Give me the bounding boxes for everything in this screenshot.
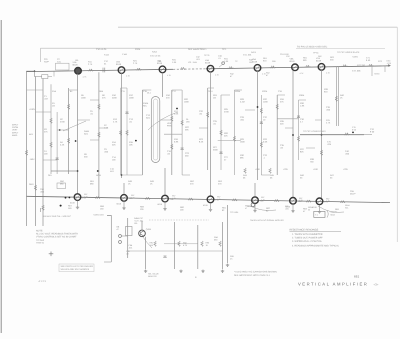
label heater note [297,46,328,49]
svg-text:SEL: SEL [345,206,349,209]
svg-text:470K: 470K [60,121,65,124]
svg-text:1. TAKEN WITH OHMMETER: 1. TAKEN WITH OHMMETER [292,233,323,236]
label underbus r3 [308,206,313,211]
component box X1 [126,227,133,236]
label field28 [167,122,173,128]
resistor R51 [270,66,275,68]
wire stage v4 [197,225,199,269]
wire plate load 7b [337,66,339,126]
label R93 [206,242,211,247]
svg-text:AMPL: AMPL [12,134,19,137]
svg-text:* ELECTROLYTIC CAPACITORS SH: * ELECTROLYTIC CAPACITORS SHOWN [234,271,277,274]
wire stub9 [142,89,151,91]
label V7A [316,57,322,63]
label field107 [96,174,101,177]
label field64 [29,133,33,136]
tube V3B [162,195,169,202]
ground G5 [226,264,229,267]
svg-text:R28A: R28A [235,90,241,93]
label field59 [326,106,331,112]
wire V6B drop [292,204,294,209]
label term [374,73,380,76]
ground G2 [179,270,182,273]
junction J4 [135,140,137,142]
svg-text:R13A: R13A [104,54,110,57]
wire feedback drop [40,48,42,62]
wire V4 cathode [210,72,212,196]
ground V1B [76,206,79,209]
label title mark [374,282,379,286]
label V1B [82,196,87,199]
resistor R26 body [220,130,223,135]
label field101 [143,90,148,93]
svg-text:TRIG S1: TRIG S1 [36,242,45,245]
resistor R29 body [233,136,236,141]
leader curve 0 [63,121,86,131]
label field34 [185,126,190,132]
wire stub11 [172,89,182,91]
label field5 [44,128,48,134]
resistor bus95 [95,196,100,198]
label midv 217 [217,196,222,201]
resistor R45 body [269,168,272,173]
label top2 152 [152,51,158,54]
wire stage v1 [127,218,129,258]
label field24 [112,156,117,162]
label field49 [263,138,268,144]
label field30 [167,150,172,156]
svg-text:4.7K: 4.7K [113,121,118,124]
wire stub8 [121,174,143,176]
tube V4B [207,196,214,203]
wire stub7 [121,87,127,89]
label under stage [148,273,159,278]
label field48 [263,116,268,122]
label V5A value [262,73,267,76]
label field32 [184,98,189,104]
wire V3B drop [164,202,166,207]
svg-text:7: 7 [299,66,300,69]
resistor R17 body [171,116,174,121]
svg-text:4. READINGS APPROXIMATE AND: 4. READINGS APPROXIMATE AND TYPICAL [292,245,340,248]
svg-text:R47A: R47A [251,51,257,54]
label top2 272 [272,60,277,63]
delay line inner [153,99,158,160]
svg-text:+225V DEC: +225V DEC [93,214,105,217]
label top2 104 [104,54,110,57]
wire divider d [276,95,278,175]
wire stage v2 [145,237,147,269]
label V1B type [70,202,76,205]
svg-text:GAIN: GAIN [84,130,90,133]
label field72 [60,180,65,186]
switch box SW1 [314,211,325,217]
resistor R39 body [335,96,338,101]
wire V1B drop [77,201,79,206]
wire plate load 3 [207,88,209,170]
junction J5 [176,108,178,110]
label V7A value [326,72,331,75]
capacitor C9 body [56,158,59,160]
resistor R7 body [67,138,70,143]
label field41 [213,146,218,152]
label V7A pin [326,66,327,69]
label V1A value [83,75,88,78]
wire V3 cathode [162,73,164,98]
wire stage h2 [164,243,198,245]
label field74 [190,180,195,186]
wire V2B drop [123,201,125,206]
resistor R44 body [244,168,247,173]
tube V7B [316,198,323,205]
label field102 [255,168,261,171]
svg-text:6DJ8: 6DJ8 [205,61,211,64]
ground V7B [318,210,321,213]
svg-text:TO CRT UPPER PLATE: TO CRT UPPER PLATE [337,51,360,54]
ground V3B [163,207,166,210]
svg-text:<3>: <3> [374,282,379,286]
capacitor C91 [164,256,167,258]
label V3A [157,60,163,66]
label bracket C14 [110,168,115,173]
svg-text:68K: 68K [240,157,244,160]
label field69 [330,174,335,180]
resistor R34 body [276,104,279,109]
label under stage2 [195,276,197,279]
resistor bus306 [306,200,311,202]
label field73 [90,180,95,186]
resistor R14 body [119,130,122,135]
label field53 [280,144,285,150]
svg-text:2.7K: 2.7K [133,62,138,65]
wire sense hook [107,216,111,263]
svg-text:NOM: NOM [96,174,101,177]
ground V6B [291,209,294,212]
page edge right [396,27,398,242]
label field33 [199,110,204,116]
label field70 [128,180,133,186]
resistor R15 body [126,130,129,135]
junction J9 [352,132,354,134]
label midv 172 [172,195,177,200]
label Q1 [146,228,152,231]
label field91 [135,48,141,51]
label top 352 [352,56,359,59]
label top 133 [133,60,138,66]
svg-text:TAKEN WITH NO SIGNAL APPLI: TAKEN WITH NO SIGNAL APPLIED [250,219,284,222]
label top 150 [150,55,161,58]
label V3A value [167,74,172,77]
label top 313 [313,52,319,55]
svg-text:+100V: +100V [29,108,36,111]
wire V6 cathode [292,70,294,197]
label DL1 [147,92,152,95]
svg-text:R16A: R16A [143,102,149,105]
label q cap [129,244,134,249]
label field82 [222,207,227,213]
svg-text:100K: 100K [184,101,189,104]
resistor R11 [88,69,93,71]
termination block [42,75,48,79]
wire top plate bus dashed [173,68,206,71]
tube V6B [290,198,297,205]
label V3B [170,198,175,201]
wire coupling h2 [218,140,241,142]
wire bias riser [50,84,52,174]
svg-text:6.8K: 6.8K [174,141,179,144]
note heading [290,229,319,232]
wire interstage a [171,90,173,175]
label field17 [99,90,104,93]
wire V5 cathode [257,71,259,180]
capacitor C32 body [260,122,263,124]
label field79 [100,205,105,211]
junction J2 [75,140,77,142]
svg-text:NOTE:: NOTE: [36,229,43,232]
relay box K1 [57,183,66,189]
ground V5B [253,209,256,212]
resistor R32 body [260,108,263,113]
svg-text:R32A: R32A [262,90,268,93]
label field57 [310,158,315,164]
svg-text:47K: 47K [44,131,48,134]
label top 88 [88,61,93,67]
resistor left a [34,185,37,190]
label V2A pin [126,69,127,72]
label field39 [213,120,218,126]
label top2 196 [196,56,201,61]
wire V7 cathode [321,70,323,198]
svg-text:R72 330: R72 330 [357,64,366,67]
wire plate load 5 [260,95,262,175]
resistor R94 [219,241,222,246]
label top2 286 [286,55,291,58]
svg-text:220K: 220K [112,97,117,100]
label field47 [263,98,268,104]
svg-text:RESISTANCE READINGS: RESISTANCE READINGS [290,229,319,232]
label field46 [240,154,245,160]
label field96 [278,90,283,93]
svg-text:47K: 47K [280,101,284,104]
svg-text:ADJ: ADJ [29,133,33,136]
label under X1 [126,250,131,255]
resistor R33 body [260,142,263,147]
svg-text:MAG: MAG [331,214,336,217]
svg-text:10K: 10K [129,144,133,147]
svg-text:1M: 1M [213,97,216,100]
brace sw [327,211,328,218]
wire top plate bus b [206,66,390,69]
label swp trig [36,239,45,245]
svg-text:.005: .005 [285,208,289,211]
svg-text:FROM: FROM [12,126,18,129]
label field9 [81,94,86,100]
wire V5 lower stub [254,183,256,197]
svg-text:150K: 150K [240,141,245,144]
label field62 [29,158,35,161]
label V6B type [286,205,292,208]
label field15 [84,153,88,159]
label V6A [290,58,296,64]
leader curve 3 [250,206,276,211]
svg-text:8.2K: 8.2K [199,141,204,144]
label gain [230,255,235,260]
label top 224 [224,58,229,64]
svg-text:82K: 82K [300,151,304,154]
resistor R37 body [297,136,300,141]
label top 366 [366,57,371,63]
wire stub19 [277,94,285,96]
label top 303 [303,56,308,62]
marker plus [49,252,54,257]
label top 204 [204,54,210,57]
label top 172 [172,59,177,65]
delay line DL1 [151,97,160,163]
label top2 249 [249,59,254,64]
svg-text:-150V: -150V [29,158,35,161]
svg-text:VTVM, CONTROLS SET AS IN CHART: VTVM, CONTROLS SET AS IN CHART [36,236,77,239]
label field60 [340,94,345,100]
label V2B [129,197,134,200]
svg-text:TERM: TERM [374,73,380,76]
label top3 218 [218,55,223,60]
wire divider c [220,95,222,170]
resistor R10 body [98,104,101,109]
resistor R4 body [50,142,53,147]
resistor R93 [201,241,204,246]
svg-text:INPUT: INPUT [12,131,19,134]
wire stage v5 [222,222,224,269]
svg-text:TO CRT LOWER PLATE: TO CRT LOWER PLATE [303,130,326,133]
wire stub15 [221,94,230,96]
label out end [352,126,357,131]
svg-text:Q494: Q494 [146,228,152,231]
svg-text:VALUES AND SN CHANGES: VALUES AND SN CHANGES [61,268,90,271]
wire coupling riser [233,90,235,175]
capacitor C13 body [126,112,129,114]
label V1A pin [82,70,83,73]
label R91 [150,242,155,247]
tube V4A [207,65,214,72]
svg-text:ADJ: ADJ [110,170,114,173]
wire stub16 [234,89,242,91]
wire plate load 2 [141,90,143,175]
wire stub14 [208,87,214,89]
svg-text:5.6K: 5.6K [263,141,268,144]
svg-text:22K: 22K [224,135,228,138]
title VERTICAL AMPLIFIER [298,281,368,286]
label field85 [335,208,340,214]
label field92 [222,48,227,51]
wire V5B drop [254,204,256,209]
svg-text:22K: 22K [112,144,116,147]
label top2 122 [122,53,128,56]
wire stub1 [36,111,52,113]
svg-text:-150 ADJ SWP CAL +100 DEC: -150 ADJ SWP CAL +100 DEC [42,215,71,218]
svg-text:6DJ8: 6DJ8 [73,64,79,67]
svg-text:6DJ8: 6DJ8 [116,63,122,66]
capacitor C27 body [220,152,223,154]
svg-text:R6A: R6A [99,90,104,93]
svg-text:6DJ8: 6DJ8 [290,60,296,63]
svg-text:R12A: R12A [135,48,141,51]
svg-text:VERT: VERT [167,122,173,125]
svg-text:1.8K: 1.8K [224,60,229,63]
wire tp lead [219,64,223,67]
resistor bus232 [232,199,237,201]
wire stub25 [57,129,69,131]
label field78 [68,205,73,211]
label field99 [172,90,177,93]
label V7B [324,201,329,204]
note line2 [292,236,323,239]
label field104 [313,168,319,171]
label top 378 [378,60,383,63]
svg-text:C72 .005: C72 .005 [352,70,361,73]
wire divider e [298,100,300,160]
wire divider b [126,88,128,175]
wire left frame [26,72,28,227]
resistor R31 [180,67,185,69]
wire Q1 collector [141,221,143,230]
label midv 299 [299,197,304,202]
label V2A value [126,75,131,78]
node input [34,70,36,72]
resistor R13 body [98,132,101,137]
svg-text:SEE PARTS LIST FOR EARLIER: SEE PARTS LIST FOR EARLIER [61,265,94,268]
label field16 [104,148,109,154]
wire V2 lower stub [123,183,125,195]
resistor R19 body [171,144,174,149]
label field58 [324,88,329,94]
junction J1 [59,129,61,131]
label field4 [60,118,65,124]
label field81 [180,206,185,212]
label field83 [266,207,271,213]
terminal bb1 [119,235,122,238]
wire heater lead [296,47,385,49]
ground G3 [201,270,204,273]
page edge top [118,26,397,28]
svg-text:100K: 100K [81,97,86,100]
wire stub5 [90,99,99,101]
note serial text [61,265,94,271]
transistor Q1 bars [141,231,144,236]
note voltage conditions [36,229,78,238]
label field40 [224,132,229,138]
wire screen drop [68,88,70,174]
capacitor C12 [103,68,105,73]
junction mid dark [60,205,62,207]
wire stub6 [99,127,108,129]
label field1 [75,59,80,62]
label field105 [343,168,349,171]
label field23 [129,141,134,147]
svg-text:1.8K: 1.8K [172,61,177,64]
label field14 [84,130,90,136]
note line1 [292,233,323,236]
svg-text:INPUT: INPUT [12,124,19,127]
resistor bus340 [340,201,345,203]
label field54 [300,102,305,108]
wire term stub1 [371,66,373,76]
svg-text:7: 7 [167,68,168,71]
label top 243 [243,54,252,57]
label field2 [44,95,49,101]
svg-text:C14A: C14A [122,53,128,56]
wire output stub2 [364,134,372,136]
label field25 [146,114,151,120]
